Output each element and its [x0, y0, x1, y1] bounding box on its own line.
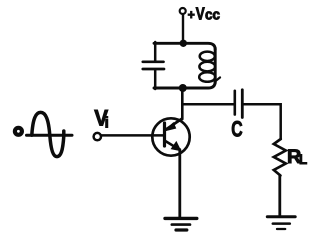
svg-text:+: +: [188, 7, 196, 22]
node tank bottom junction: [179, 84, 187, 92]
node tank top junction: [180, 40, 187, 47]
svg-text:cc: cc: [205, 8, 220, 24]
transistor Q1: [152, 118, 189, 155]
ground (emitter): [165, 218, 197, 230]
wire tank top: [154, 43, 215, 49]
terminal Vi: [94, 133, 101, 140]
svg-text:C: C: [231, 117, 242, 142]
inductor L1: [199, 48, 220, 83]
wire collector: [181, 89, 184, 120]
ground (load): [267, 217, 295, 229]
resistor RL: [274, 139, 286, 176]
wire collector to C: [182, 103, 234, 106]
wire base: [101, 134, 165, 137]
wire RL to ground: [278, 176, 281, 216]
label +Vcc: [188, 4, 220, 24]
wire Vcc: [182, 14, 184, 44]
input signal source (sine symbol): [15, 112, 72, 156]
wire tank left upper: [154, 42, 157, 61]
svg-text:L: L: [299, 151, 308, 167]
terminal +Vcc: [180, 8, 186, 14]
svg-text:i: i: [105, 114, 109, 131]
capacitor C1 (tank): [143, 62, 164, 69]
label Vi: [94, 106, 109, 132]
wire emitter: [178, 150, 181, 218]
label C: [231, 117, 242, 142]
wire tank left lower: [154, 70, 157, 90]
capacitor C: [235, 90, 243, 118]
label RL: [287, 146, 308, 168]
wire tank bottom: [154, 82, 215, 89]
svg-text:V: V: [196, 4, 205, 24]
wire C to right rail: [244, 104, 281, 139]
